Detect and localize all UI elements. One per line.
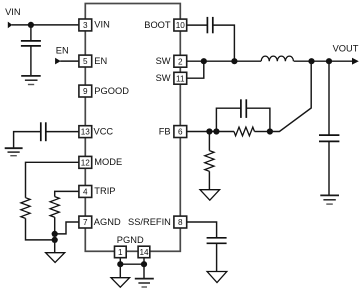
- pin 5 box: [79, 55, 92, 67]
- wire pin 6 FB to divider: [187, 131, 234, 133]
- wire input cap to ground: [30, 46, 32, 75]
- wire TRIP resistor to junction: [54, 217, 56, 234]
- pin label EN: [94, 56, 107, 66]
- node junction dot FB a: [206, 128, 212, 134]
- node junction dot SW boot: [231, 58, 237, 64]
- wire pin 8 SS to cap: [187, 222, 217, 237]
- pin 4 box: [79, 186, 92, 198]
- svg-text:SS/REFIN: SS/REFIN: [128, 217, 171, 227]
- capacitor C5 soft start: [207, 238, 227, 244]
- wire pin 10 BOOT to cap: [187, 24, 208, 26]
- svg-text:2: 2: [178, 57, 183, 66]
- wire pin 1 PGND lead: [119, 258, 121, 264]
- svg-text:5: 5: [83, 57, 88, 66]
- pin 1 box: [115, 246, 127, 258]
- wire boot cap to SW node: [213, 25, 235, 61]
- svg-text:EN: EN: [94, 56, 107, 66]
- wire FB c to VOUT tap diagonal: [270, 61, 311, 131]
- ground triangle FB divider: [200, 190, 220, 201]
- pin 12 box: [79, 156, 92, 168]
- pin 8 box: [174, 216, 187, 228]
- wire pin 13 VCC to cap: [46, 131, 79, 133]
- svg-text:VOUT: VOUT: [333, 43, 359, 53]
- wire pin 11 SW up to SW node: [187, 61, 204, 78]
- wire lower resistor to ground: [208, 171, 210, 189]
- svg-text:VIN: VIN: [5, 7, 21, 17]
- wire MODE resistor to junction: [26, 218, 55, 240]
- resistor R4 feedback lower: [205, 151, 214, 172]
- svg-text:VIN: VIN: [94, 20, 110, 30]
- svg-text:FB: FB: [159, 126, 171, 136]
- wire pin14 dot to bar ground: [143, 264, 145, 278]
- svg-text:EN: EN: [56, 46, 69, 56]
- wire inductor to VOUT: [294, 60, 353, 62]
- EN input arrow: [55, 58, 61, 65]
- svg-text:MODE: MODE: [94, 157, 122, 167]
- wire pin 4 TRIP to resistor: [55, 191, 79, 196]
- svg-text:11: 11: [176, 74, 185, 83]
- wire PGND bus: [120, 263, 144, 265]
- node junction dot AGND: [52, 231, 58, 237]
- svg-text:6: 6: [178, 128, 183, 137]
- wire VIN dot down to input cap: [30, 25, 32, 41]
- node junction dot FB c: [267, 128, 273, 134]
- svg-text:SW: SW: [156, 56, 171, 66]
- pin 3 box: [79, 19, 92, 31]
- inductor L1: [261, 56, 293, 61]
- pin label TRIP: [94, 186, 115, 196]
- pin label VIN: [94, 20, 110, 30]
- svg-text:10: 10: [176, 21, 186, 30]
- wire output cap to ground: [328, 142, 330, 195]
- svg-text:PGOOD: PGOOD: [94, 86, 129, 96]
- svg-text:TRIP: TRIP: [94, 186, 115, 196]
- wire pin 7 AGND to junction: [55, 222, 79, 234]
- wire VOUT to output cap: [328, 61, 330, 134]
- node VIN net label: [5, 7, 21, 17]
- wire pin 2 SW to inductor: [187, 60, 261, 62]
- node junction dot pin 14: [141, 261, 147, 267]
- svg-text:PGND: PGND: [117, 235, 144, 245]
- wire pin1 dot to triangle ground: [119, 264, 121, 278]
- ground bars below pin 14: [135, 279, 154, 287]
- capacitor C6 output: [319, 135, 339, 141]
- svg-text:13: 13: [81, 128, 91, 137]
- pin 11 box: [174, 72, 187, 84]
- node junction dot feedback tap: [308, 58, 314, 64]
- pin label SW pin2: [156, 56, 171, 66]
- svg-text:BOOT: BOOT: [144, 20, 171, 30]
- ground analog triangle: [46, 253, 65, 263]
- pin label VCC: [94, 127, 114, 137]
- pin 13 box: [79, 126, 92, 138]
- node VOUT net label: [333, 43, 359, 53]
- node junction dot resistor bottom: [52, 237, 58, 243]
- pin 2 box: [174, 55, 187, 67]
- capacitor C1 input cap: [21, 41, 41, 46]
- svg-text:3: 3: [83, 21, 88, 30]
- node junction dot output cap: [326, 58, 332, 64]
- node junction dot pin 1: [117, 261, 123, 267]
- svg-text:AGND: AGND: [94, 217, 121, 227]
- VIN input arrow: [8, 22, 13, 29]
- pin label AGND: [94, 217, 121, 227]
- wire feedforward cap branch left: [216, 108, 241, 131]
- pin label PGOOD: [94, 86, 129, 96]
- svg-text:1: 1: [118, 248, 123, 257]
- wire feedforward cap branch right: [246, 108, 270, 131]
- node A junction dot VIN: [28, 22, 34, 28]
- pin 14 box: [138, 246, 150, 258]
- svg-text:8: 8: [178, 218, 183, 227]
- ground triangle SS cap: [207, 272, 227, 283]
- capacitor C4 feedforward: [241, 99, 246, 118]
- node EN net label: [56, 46, 69, 56]
- ground input cap: [21, 76, 41, 85]
- pin 7 box: [79, 216, 92, 228]
- capacitor C2 VCC bypass: [41, 122, 46, 141]
- node junction dot SW a: [201, 58, 207, 64]
- resistor R3 feedback upper: [234, 127, 255, 136]
- svg-text:VCC: VCC: [94, 127, 114, 137]
- wire VCC cap to ground corner: [14, 132, 41, 148]
- wire pin 14 PGND lead: [143, 258, 145, 264]
- resistor R2 TRIP: [50, 197, 59, 218]
- ground triangle below pin 1: [111, 278, 130, 288]
- ground output cap: [320, 195, 339, 204]
- capacitor C3 bootstrap: [207, 17, 212, 33]
- pin label FB: [159, 126, 171, 136]
- svg-text:7: 7: [83, 218, 88, 227]
- wire junction to analog ground: [54, 234, 56, 253]
- pin label MODE: [94, 157, 122, 167]
- svg-text:14: 14: [139, 248, 149, 257]
- wire FB a down to resistor: [208, 132, 210, 151]
- pin label SS/REFIN: [128, 217, 171, 227]
- wire EN arrow to pin 5: [60, 60, 79, 62]
- ground VCC cap: [5, 148, 23, 156]
- wire resistor to FB node c: [255, 131, 270, 133]
- pin 6 box: [174, 126, 187, 138]
- VOUT output arrow: [352, 58, 359, 65]
- svg-text:4: 4: [83, 188, 88, 197]
- pin label PGND: [117, 235, 144, 245]
- IC U1 body outline: [85, 4, 180, 252]
- pin label BOOT: [144, 20, 171, 30]
- svg-text:9: 9: [83, 87, 88, 96]
- wire pin 12 MODE to resistor: [26, 162, 80, 197]
- svg-text:12: 12: [81, 158, 91, 167]
- svg-text:SW: SW: [156, 73, 171, 83]
- wire VIN arrow to pin 3: [12, 24, 79, 26]
- node junction dot FB b: [213, 128, 219, 134]
- pin label SW pin11: [156, 73, 171, 83]
- pin 9 box: [79, 85, 92, 97]
- wire SS cap to ground: [216, 244, 218, 272]
- resistor R1 MODE pulldown: [21, 198, 30, 219]
- pin 10 box: [174, 19, 187, 31]
